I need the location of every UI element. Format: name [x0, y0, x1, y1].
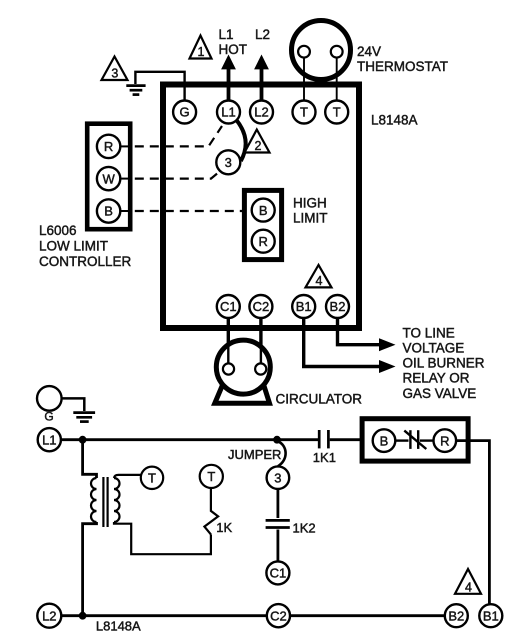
terminal L2 (lower): [37, 604, 61, 628]
terminal R (high limit): [252, 230, 275, 253]
svg-text:OIL BURNER: OIL BURNER: [403, 356, 485, 371]
svg-text:TO LINE: TO LINE: [403, 325, 455, 340]
svg-text:2: 2: [255, 139, 262, 153]
terminal R (burner box): [434, 429, 457, 452]
terminal T (above resistor): [200, 465, 223, 488]
svg-text:CIRCULATOR: CIRCULATOR: [276, 392, 363, 407]
wire R to B1: [456, 441, 489, 605]
terminal B1: [292, 295, 315, 318]
svg-text:L6006: L6006: [39, 223, 77, 238]
svg-text:1K: 1K: [216, 520, 232, 535]
svg-text:THERMOSTAT: THERMOSTAT: [357, 59, 448, 74]
svg-text:4: 4: [316, 274, 323, 288]
svg-text:L2: L2: [255, 27, 270, 42]
arrowhead to line voltage (upper): [379, 338, 396, 351]
ground (earth) symbol top-left: [126, 86, 145, 95]
terminal B2 (lower): [445, 604, 468, 627]
terminal C1: [217, 295, 240, 318]
svg-text:G: G: [180, 105, 190, 120]
svg-text:GAS VALVE: GAS VALVE: [403, 386, 477, 401]
contact arc L1 to 3: [236, 120, 245, 161]
terminal L1: [217, 101, 240, 124]
wire primary bottom to lower rail: [83, 522, 97, 613]
wire 3 to 1K2: [276, 489, 279, 518]
terminal C2 (lower): [267, 604, 290, 627]
oil burner control box: [362, 419, 468, 461]
svg-text:VOLTAGE: VOLTAGE: [403, 341, 465, 356]
resistor 1K: [204, 489, 218, 534]
svg-text:L8148A: L8148A: [371, 113, 418, 128]
wire 1K2 to C1: [276, 530, 279, 562]
svg-text:3: 3: [274, 470, 281, 485]
wire bottom rail L2 to C2: [61, 614, 266, 617]
svg-text:1: 1: [198, 45, 205, 59]
triangle note 1: [190, 36, 212, 60]
svg-text:L8148A: L8148A: [96, 618, 141, 633]
svg-text:B1: B1: [296, 299, 312, 314]
transformer T1: [91, 477, 120, 527]
terminal C1 (lower): [266, 561, 289, 584]
terminal W (L6006): [97, 167, 133, 190]
svg-text:L1: L1: [221, 105, 235, 120]
NC contact between B and R: [395, 430, 433, 449]
svg-text:L2: L2: [254, 105, 268, 120]
terminal G (lower): [37, 386, 62, 423]
terminal G: [173, 101, 196, 124]
svg-text:B2: B2: [448, 608, 464, 623]
relay case box L8148A: [163, 85, 359, 329]
dashed wire R to L1 switch blade: [135, 126, 222, 146]
svg-text:T: T: [207, 469, 215, 484]
svg-text:B: B: [259, 203, 268, 218]
ground symbol (lower): [73, 413, 95, 422]
svg-text:C1: C1: [270, 566, 287, 581]
svg-text:L1: L1: [219, 27, 234, 42]
svg-text:LIMIT: LIMIT: [293, 211, 328, 226]
wire secondary top to T: [114, 475, 141, 478]
svg-text:24V: 24V: [357, 44, 381, 59]
svg-text:T: T: [148, 471, 156, 486]
svg-text:B: B: [380, 433, 389, 448]
dashed wire B to high limit B: [135, 210, 252, 212]
circulator pump: [215, 340, 270, 403]
wire bottom rail C2 to B2: [290, 614, 445, 617]
svg-text:R: R: [259, 234, 268, 249]
wire 1K1 to B/R box: [330, 438, 360, 441]
24V thermostat circle: [292, 21, 351, 102]
terminal B (burner box): [373, 429, 396, 452]
wire secondary bottom loop to resistor: [114, 522, 211, 554]
wire C2 to circulator: [259, 318, 262, 366]
wire G to ground: [62, 398, 85, 411]
wire G stub to ground: [135, 72, 184, 101]
triangle note 4 (lower): [455, 569, 481, 594]
svg-text:CONTROLLER: CONTROLLER: [39, 254, 132, 269]
svg-text:B2: B2: [330, 299, 346, 314]
wire jumper curve to terminal 3: [278, 441, 286, 466]
terminal L1 (lower): [38, 428, 61, 451]
svg-text:T: T: [333, 105, 341, 120]
wire C1 to circulator: [227, 318, 230, 366]
svg-text:W: W: [102, 171, 115, 186]
svg-text:R: R: [440, 433, 449, 448]
terminal T left: [293, 101, 316, 124]
node junction at jumper tap: [273, 436, 281, 444]
svg-text:G: G: [44, 410, 53, 424]
node junction bottom rail: [79, 612, 87, 620]
relay contact 1K2: [266, 520, 290, 527]
arrowhead to line voltage (lower): [379, 360, 396, 373]
terminal B1 (lower): [479, 604, 502, 627]
svg-text:4: 4: [465, 580, 472, 594]
triangle note 3: [102, 57, 128, 81]
terminal T right: [325, 101, 348, 124]
svg-text:1K2: 1K2: [293, 521, 316, 536]
terminal T (transformer secondary): [141, 467, 163, 489]
high limit box: [244, 190, 281, 259]
wire L2 supply arrow: [254, 55, 269, 102]
dashed wire W to terminal 3: [135, 171, 220, 178]
svg-text:HIGH: HIGH: [293, 195, 327, 210]
triangle note 2: [245, 130, 270, 154]
triangle note 4 (upper): [306, 265, 332, 288]
relay contact 1K1: [319, 430, 328, 448]
svg-text:3: 3: [225, 155, 232, 170]
L6006 low limit controller box: [87, 124, 130, 230]
svg-text:C1: C1: [220, 299, 237, 314]
svg-text:T: T: [300, 105, 308, 120]
node junction at transformer tap: [79, 436, 87, 444]
wire top rail L1 to 1K1: [61, 438, 318, 441]
svg-text:L2: L2: [42, 608, 56, 623]
svg-text:B1: B1: [483, 608, 499, 623]
terminal R (L6006): [97, 135, 133, 158]
terminal 3 (lower): [267, 466, 290, 489]
terminal C2: [249, 295, 272, 318]
svg-text:B: B: [104, 204, 113, 219]
terminal L2: [250, 101, 273, 124]
wire B2 to line voltage: [338, 318, 382, 345]
svg-text:C2: C2: [253, 299, 270, 314]
svg-text:R: R: [104, 139, 113, 154]
wire B1 to line voltage: [304, 318, 381, 367]
svg-text:RELAY OR: RELAY OR: [403, 371, 470, 386]
svg-text:L1: L1: [42, 432, 56, 447]
svg-text:C2: C2: [270, 608, 287, 623]
terminal B (L6006): [97, 199, 133, 222]
svg-text:3: 3: [111, 67, 118, 81]
svg-text:LOW LIMIT: LOW LIMIT: [39, 238, 108, 253]
terminal 3 (upper): [216, 150, 240, 174]
terminal B (high limit): [252, 199, 275, 222]
svg-text:HOT: HOT: [219, 42, 248, 57]
wire L1 supply arrow: [221, 55, 236, 102]
svg-text:1K1: 1K1: [313, 450, 336, 465]
transformer primary branch wire: [83, 443, 97, 478]
terminal B2: [326, 295, 349, 318]
svg-text:JUMPER: JUMPER: [228, 447, 281, 462]
